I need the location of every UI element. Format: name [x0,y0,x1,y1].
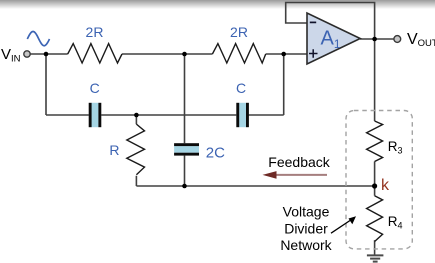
node M2 [134,113,139,118]
capacitor C (right) [236,103,249,127]
wire: left vertical from input node [45,54,47,115]
wire: op-amp minus input [286,3,375,40]
svg-text:Voltage: Voltage [283,204,330,220]
node: plus input [281,52,286,57]
wire: R3 to node k [374,162,376,196]
wire: second 2R to op-amp plus input [266,53,307,55]
sine wave symbol [27,32,49,46]
wire: R4 to ground [374,240,376,255]
svg-text:2R: 2R [230,24,248,40]
node: output [372,37,377,42]
wire: capacitor row right [248,114,284,116]
node M1 [182,52,187,57]
svg-text:R: R [109,142,119,158]
wire: right vertical to plus node [283,54,285,115]
wire: capacitor row left [46,114,89,116]
input terminal [24,51,30,57]
resistor 2R (second) [212,44,265,63]
wire: output vertical down to R3 [374,39,376,121]
node k [372,183,377,188]
feedback arrow [275,174,327,176]
resistor R4 [367,196,383,242]
top gradient strip [0,0,435,9]
wire: R bottom to feedback line [135,176,137,186]
capacitor 2C (vertical) [174,143,199,155]
wire: between 2R resistors [122,53,212,55]
resistor R (vertical) [127,124,145,175]
op-amp plus sign [309,49,318,58]
svg-text:Feedback: Feedback [268,154,330,170]
op-amp A1 [307,13,360,64]
svg-text:2C: 2C [206,144,225,161]
pointer arrow to voltage divider box [331,221,350,234]
svg-text:2R: 2R [86,24,104,40]
svg-text:k: k [381,177,390,194]
resistor 2R (first) [68,44,122,63]
ground [367,255,384,261]
svg-text:C: C [90,80,100,96]
wire: 2C bottom to feedback line [184,156,186,186]
svg-text:Network: Network [280,237,332,253]
dashed box: voltage divider network [346,111,412,249]
resistor R3 [367,121,383,162]
op-amp minus sign [310,21,316,23]
svg-text:C: C [236,80,246,96]
capacitor C (left) [89,103,102,127]
wire: feedback bottom line [136,185,374,187]
wire: middle vertical from node M1 down to 2C [184,54,186,143]
wire: M2 node down to R [135,115,137,124]
node: bottom junction [182,184,187,189]
output terminal [394,36,401,43]
wire: capacitor row middle [101,114,236,116]
wire: input to first resistor [30,53,68,55]
svg-text:Divider: Divider [284,220,328,236]
node: input junction [44,52,49,57]
wire: op-amp output [360,38,394,40]
